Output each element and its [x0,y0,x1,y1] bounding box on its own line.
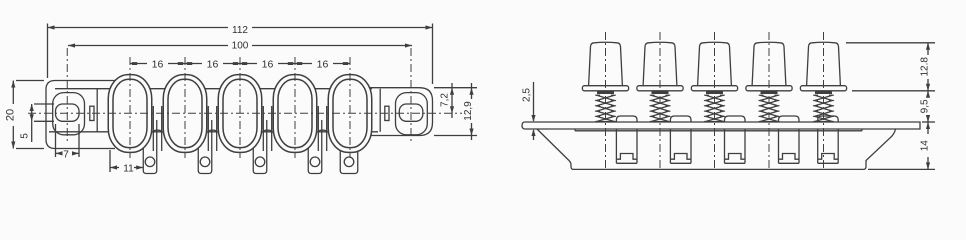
strip top edge [55,88,372,90]
dim 7 slot width [56,124,80,160]
cap flange 4 [746,86,792,91]
fuse cap 2 [643,42,677,85]
plate bump 4 [779,116,800,122]
rib wall 2 between sockets [208,106,216,151]
right strip block [385,106,389,120]
cap flange 2 [637,86,683,91]
fuse cap 1 [589,42,623,85]
svg-text:16: 16 [207,58,219,70]
terminal tab T3 with hole [253,120,267,174]
oval socket boss 5 inner [333,79,367,147]
dim 5 slot height [20,104,55,142]
vertical centerline socket 3 [239,57,241,158]
left section line [96,89,98,132]
svg-text:7,2: 7,2 [440,93,451,107]
left ear boss [53,93,85,135]
fuse cap 4 [752,42,786,85]
svg-text:14: 14 [920,140,931,152]
unit centerline 3 [714,32,716,168]
dim 2.5 plate thickness [522,82,536,140]
terminal tab T2 with hole [198,120,212,174]
vertical centerline socket 4 [294,57,296,158]
spring 4 [759,93,780,122]
rib wall 1 between sockets [153,106,161,151]
svg-text:100: 100 [232,41,249,52]
oval socket boss 4 inner [278,79,312,147]
dim 112 overall length [48,24,433,85]
terminal tab T4 with hole [308,120,322,174]
spring 5 [813,93,834,122]
right ear boss [396,93,428,135]
oval socket boss 2 outer [163,75,207,153]
unit centerline 4 [768,32,770,168]
right mounting ear outline [363,88,433,136]
vertical centerline socket 2 [184,57,186,158]
rib wall 3 between sockets [263,106,271,151]
side view of holder [522,32,936,169]
cap flange 5 [800,86,846,91]
svg-text:12.8: 12.8 [920,57,931,77]
oval socket boss 1 outer [108,75,152,153]
cap flange 1 [582,86,628,91]
svg-text:11: 11 [123,163,134,174]
base plate [522,122,920,129]
left strip block [90,106,94,120]
vertical centerline socket 5 [349,57,351,158]
left view: top view of 5-position holder strip [5,24,478,175]
plate bump 1 [616,116,637,122]
unit centerline 5 [823,32,825,168]
left mounting ear outline [46,81,115,149]
svg-text:5: 5 [20,133,31,139]
oval socket boss 3 inner [223,79,257,147]
lower terminal tab side view 2 [670,129,691,163]
oval socket boss 4 outer [273,75,317,153]
vertical centerline socket 1 [129,57,131,158]
lower terminal tab side view 1 [616,129,637,163]
svg-text:12,9: 12,9 [463,101,474,121]
terminal tab T1 with hole [143,120,157,174]
svg-text:7: 7 [63,149,69,160]
spring 3 [704,93,725,122]
right ear slot hole [399,104,423,121]
fuse cap 5 [807,42,841,85]
left ear slot hole [56,104,80,121]
plate bump 2 [670,116,691,122]
oval socket boss 2 inner [168,79,202,147]
rib wall 4 between sockets [318,106,326,151]
svg-text:2,5: 2,5 [522,88,533,102]
oval socket boss 5 outer [328,75,372,153]
fuse cap 3 [698,42,732,85]
right slot centerline [410,48,412,142]
oval socket boss 3 outer [218,75,262,153]
dim 100 hole pitch [68,41,412,52]
svg-text:16: 16 [262,58,274,70]
dim 16 socket pitch chain [130,58,350,70]
cap flange 3 [691,86,737,91]
svg-text:20: 20 [5,109,17,121]
right section line [379,89,381,132]
dim 11 tab offset [110,150,143,174]
dim 7.2 half height [434,83,477,118]
plate bump 3 [725,116,746,122]
housing body outline [537,129,896,169]
lower terminal tab side view 4 [779,129,800,163]
lower terminal tab side view 5 [818,129,839,163]
unit centerline 2 [659,32,661,168]
spring 2 [650,93,671,122]
svg-text:112: 112 [232,25,248,36]
housing top edge [575,129,862,131]
terminal tab T5 with hole [340,120,358,174]
horizontal centerline of strip [28,112,462,114]
oval socket boss 1 inner [113,79,147,147]
svg-text:9,5: 9,5 [920,99,931,113]
right dim column 12.8 9.5 14 [846,43,935,170]
lower terminal tab side view 3 [725,129,746,163]
svg-text:16: 16 [152,58,164,70]
plate bump 5 [818,116,839,122]
spring 1 [595,93,616,122]
left slot centerline [66,48,68,142]
dim 12.9 strip width [434,83,477,140]
dim 20 ear height [5,81,45,149]
svg-text:16: 16 [317,58,329,70]
unit centerline 1 [605,32,607,168]
strip bottom edge [49,131,378,133]
